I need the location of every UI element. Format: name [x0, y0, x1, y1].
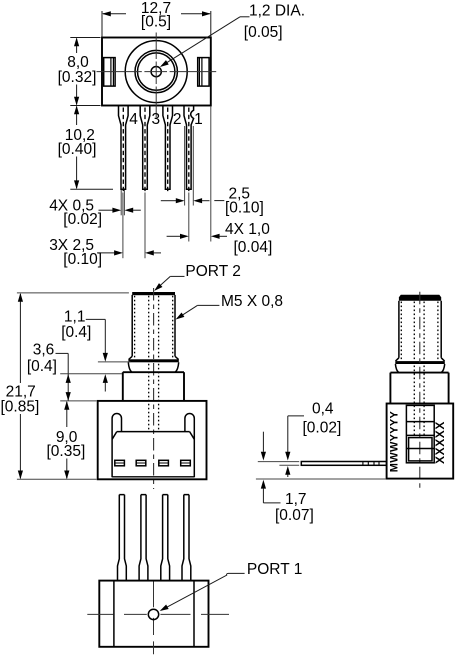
pin 2 top view	[163, 106, 173, 193]
bottom view pin 2	[139, 495, 148, 580]
svg-text:0,4: 0,4	[312, 401, 334, 418]
front main body	[98, 401, 207, 479]
svg-text:1,1: 1,1	[64, 309, 86, 326]
front vertical centerline	[153, 288, 155, 489]
svg-text:1,2 DIA.: 1,2 DIA.	[249, 3, 305, 20]
svg-text:[0.4]: [0.4]	[61, 324, 91, 341]
side step	[390, 373, 448, 404]
ring circle inner	[138, 53, 175, 90]
svg-text:[0.02]: [0.02]	[303, 419, 342, 436]
front thread root dotted lines	[135, 296, 173, 359]
bottom horizontal centerline	[87, 613, 229, 615]
label PORT 2 with leader	[154, 263, 241, 291]
svg-text:4: 4	[129, 111, 138, 128]
svg-text:[0.02]: [0.02]	[63, 211, 102, 228]
side flare to step	[395, 364, 444, 373]
bottom view pin 4	[182, 495, 191, 580]
svg-text:4X 1,0: 4X 1,0	[225, 221, 270, 238]
front pilot hole dotted lines	[149, 296, 159, 432]
bottom vertical centerline	[153, 582, 155, 655]
label 2,5 [0.10]	[214, 185, 263, 216]
side pin	[301, 461, 386, 466]
svg-text:3: 3	[151, 111, 160, 128]
dimension 3X 2,5 [0.10] pin pitch	[49, 193, 161, 268]
bottom view pin 3	[161, 495, 170, 580]
svg-text:[0.35]: [0.35]	[47, 443, 86, 460]
center hole 1,2 dia	[151, 67, 161, 77]
side thread lip bar	[395, 361, 445, 364]
dimension 0,4 [0.02] pin thickness	[258, 401, 341, 477]
left mounting tab	[104, 58, 115, 87]
side threaded port	[396, 295, 445, 361]
front flare to step	[128, 362, 178, 372]
side thread root dotted lines	[401, 302, 438, 361]
side vertical centerline	[419, 292, 421, 489]
front threaded port body	[129, 292, 179, 360]
dimension 1,1 [0.4]	[61, 309, 130, 392]
front step	[123, 372, 184, 401]
svg-text:[0.40]: [0.40]	[58, 141, 97, 158]
pin 4 top view	[119, 106, 129, 193]
port 1 hole	[148, 609, 158, 619]
svg-text:[0.10]: [0.10]	[63, 251, 102, 268]
dimension 1,7 [0.07] pin height	[256, 432, 386, 525]
svg-text:3,6: 3,6	[33, 341, 55, 358]
label PORT 1 with leader	[160, 561, 303, 611]
svg-text:[0.4]: [0.4]	[27, 358, 57, 375]
ring circle outer	[135, 50, 177, 92]
svg-text:1: 1	[194, 111, 203, 128]
connector slot 1	[115, 460, 125, 466]
connector slot 3	[159, 460, 169, 466]
bottom view body	[99, 581, 208, 647]
side inner panel	[406, 405, 434, 462]
dimension 10,2 [0.40] pin length	[58, 106, 113, 190]
svg-text:MWWYYYY: MWWYYYY	[389, 410, 401, 472]
connector left ear	[112, 414, 121, 478]
label M5 X 0,8 with leader	[176, 293, 283, 320]
dimension 3,6 [0.4]	[27, 341, 122, 401]
dimension 4X 0,5 [0.02] pin width	[49, 190, 141, 228]
connector slot 4	[181, 460, 191, 466]
dimension 21,7 [0.85]	[1, 293, 129, 479]
vertical centerline top view	[155, 33, 157, 118]
connector right ear	[185, 414, 194, 478]
svg-text:[0.05]: [0.05]	[244, 24, 283, 41]
leader 1,2 DIA. [0.05]	[160, 3, 305, 67]
side main body	[387, 404, 454, 479]
svg-text:[0.04]: [0.04]	[234, 239, 273, 256]
label 4X 1,0 [0.04]	[225, 221, 272, 256]
horizontal centerline top view	[97, 71, 217, 73]
svg-text:[0.10]: [0.10]	[225, 200, 264, 217]
svg-text:[0.07]: [0.07]	[275, 507, 314, 524]
bottom view pin 1	[118, 495, 127, 580]
dimension 9,0 [0.35]	[47, 401, 97, 479]
connector slot 2	[136, 460, 146, 466]
dimension 2,5 arrows pin1 center to edge	[167, 106, 227, 241]
dimension 12,7 [0.5] overall width	[102, 0, 211, 37]
svg-text:M5 X 0,8: M5 X 0,8	[221, 293, 283, 310]
svg-text:PORT 1: PORT 1	[247, 561, 302, 578]
right mounting tab	[198, 58, 209, 87]
dimension 8,0 [0.32] body height	[58, 38, 101, 106]
outer boss circle	[125, 41, 187, 103]
svg-text:1,7: 1,7	[285, 491, 307, 508]
bottom view right wall line	[193, 581, 195, 647]
front thread lip bar	[128, 359, 178, 362]
bottom view left wall line	[113, 581, 115, 647]
svg-text:2: 2	[173, 111, 182, 128]
pin 3 top view	[140, 106, 150, 193]
svg-text:PORT 2: PORT 2	[185, 263, 240, 280]
connector housing profile	[112, 432, 194, 477]
svg-text:XXXXX: XXXXX	[433, 421, 447, 464]
top view body	[102, 38, 211, 106]
svg-text:[0.5]: [0.5]	[141, 13, 171, 30]
svg-text:[0.32]: [0.32]	[58, 69, 97, 86]
svg-text:[0.85]: [0.85]	[1, 399, 40, 416]
pin 1 top view with crimp jog	[184, 106, 194, 193]
side pilot hole dotted lines	[414, 302, 424, 436]
dimension 4X 1,0 arrows at pin1 shoulder	[161, 126, 210, 206]
